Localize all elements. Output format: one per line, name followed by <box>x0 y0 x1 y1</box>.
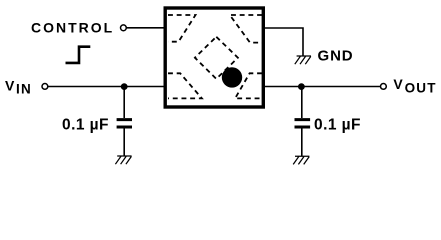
dashed cube face bottom-right <box>235 73 262 98</box>
dashed cube face top-left <box>168 15 196 42</box>
ball (sensing element) <box>222 67 242 87</box>
wire U1 GND pin to ground <box>264 28 303 56</box>
wire VIN to U1 <box>48 86 165 88</box>
svg-text:0.1 µF: 0.1 µF <box>62 117 109 134</box>
ground symbol at GND pin <box>295 56 311 64</box>
svg-text:V: V <box>393 76 403 92</box>
wire U1 to VOUT <box>264 86 380 88</box>
dashed cube face top-right <box>230 15 262 43</box>
ground symbol right <box>293 156 309 164</box>
control step waveform symbol <box>66 47 91 63</box>
ground symbol left <box>115 156 131 164</box>
CONTROL terminal circle <box>121 25 127 31</box>
svg-text:V: V <box>5 78 15 94</box>
wire C2 to ground <box>301 128 303 156</box>
svg-text:GND: GND <box>318 47 354 64</box>
dashed cavity diamond <box>195 37 238 79</box>
svg-text:CONTROL: CONTROL <box>31 20 114 36</box>
svg-text:OUT: OUT <box>405 80 437 95</box>
wire C1 to ground <box>123 128 125 156</box>
node junction VIN/C1 <box>121 83 128 90</box>
wire junction to C1 <box>123 87 125 119</box>
wire CONTROL to U1 <box>126 27 165 29</box>
dashed cube face bottom-left <box>168 73 202 98</box>
IC U1 package outline <box>165 8 263 107</box>
VOUT terminal circle <box>381 84 387 90</box>
svg-text:IN: IN <box>16 82 32 97</box>
wire junction to C2 <box>301 87 303 119</box>
capacitor C2 plates <box>295 120 311 127</box>
VIN terminal circle <box>42 84 48 90</box>
capacitor C1 plates <box>117 120 132 127</box>
svg-text:0.1 µF: 0.1 µF <box>314 117 361 134</box>
node junction VOUT/C2 <box>298 83 305 90</box>
